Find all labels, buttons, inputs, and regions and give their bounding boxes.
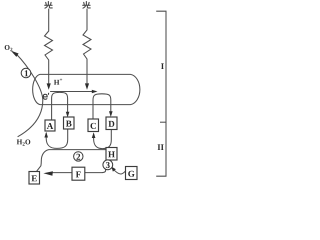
label I (light reactions) xyxy=(161,63,164,69)
curve G to cycle (CO2 entering) xyxy=(112,168,125,174)
right bracket xyxy=(156,11,166,176)
arrow into E (from cycle bottom edge) xyxy=(43,171,53,176)
label II (dark reactions) xyxy=(158,144,161,150)
arch arrow A to B (inside membrane) xyxy=(52,92,68,119)
label 光 1 (light) xyxy=(45,2,53,9)
arrowhead into D xyxy=(109,111,113,117)
circled 3 (CO2 fixation) xyxy=(103,160,113,170)
arrowhead into C xyxy=(92,132,96,138)
label H2O xyxy=(17,140,22,145)
light ray 2 (wavy arrow into membrane) xyxy=(83,9,91,84)
Calvin cycle stadium (region II) xyxy=(53,169,106,172)
arrowhead of light ray 1 xyxy=(47,83,51,89)
arrowhead of electron arrow xyxy=(92,90,98,94)
box C xyxy=(88,119,99,132)
arrowhead into A xyxy=(44,132,48,138)
label H+ xyxy=(54,80,59,85)
arch arrow C to D (inside membrane) xyxy=(93,94,111,119)
water to O2 curve xyxy=(17,54,43,136)
box B xyxy=(64,117,75,129)
thylakoid membrane stadium (region I) xyxy=(33,74,140,104)
bracket middle tick xyxy=(160,121,166,123)
arrowhead into B xyxy=(66,112,70,118)
label e- xyxy=(43,93,49,99)
box E xyxy=(29,172,40,185)
U arrow D to C (below boxes) xyxy=(94,130,112,149)
box D xyxy=(106,117,117,130)
box A xyxy=(45,120,55,131)
arrowhead into circled 3 xyxy=(111,167,116,172)
Calvin cycle left cap exiting into E xyxy=(37,150,106,172)
box F xyxy=(72,167,85,180)
circled 2 (in Calvin cycle) xyxy=(74,152,83,161)
circled 1 (water splitting) xyxy=(21,68,31,78)
label 光 2 (light) xyxy=(83,2,91,9)
box H xyxy=(106,148,117,161)
arrowhead toward O2 xyxy=(11,51,19,57)
electron transport arrow (horizontal) xyxy=(51,91,93,93)
arrowhead of light ray 2 xyxy=(85,83,89,89)
U arrow B to A (below boxes) xyxy=(46,129,67,148)
light ray 1 (wavy arrow into membrane, H+ arrow) xyxy=(45,9,53,84)
box G xyxy=(126,167,138,180)
label O2 xyxy=(5,45,10,50)
